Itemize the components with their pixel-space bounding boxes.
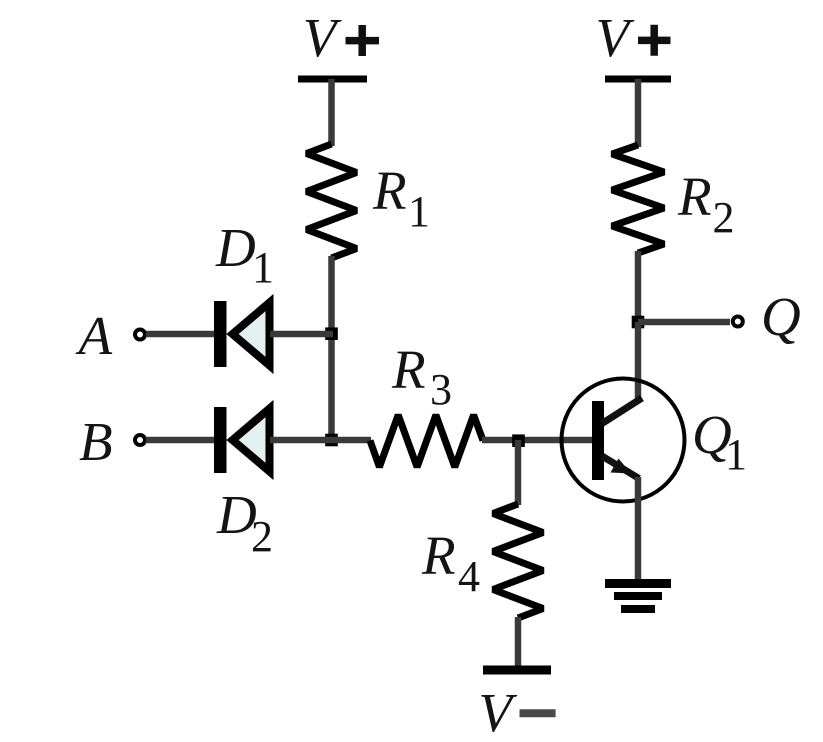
ground xyxy=(605,584,671,610)
V+ rail bar (left) xyxy=(298,76,367,83)
wire B terminal to D2 xyxy=(146,437,216,444)
node junction D1/R1 xyxy=(325,327,338,340)
wire Q node to terminal xyxy=(638,319,730,326)
svg-text:V: V xyxy=(478,682,517,742)
wire emitter to ground xyxy=(635,477,642,581)
V+ label (left) xyxy=(303,7,379,68)
svg-text:V: V xyxy=(596,7,635,68)
wire D2 to R3 xyxy=(270,437,371,444)
resistor R3 xyxy=(370,415,483,467)
wire R4 to V- xyxy=(515,617,522,667)
wire V+ to R2 xyxy=(635,79,642,147)
wire collector vertical xyxy=(635,322,642,400)
wire node to R4 xyxy=(515,440,522,505)
wire D1 to junction xyxy=(270,331,333,338)
V- rail bar xyxy=(483,666,551,675)
svg-text:V: V xyxy=(303,7,342,68)
terminal Q xyxy=(733,317,743,327)
svg-text:A: A xyxy=(75,305,113,366)
V+ rail bar (right) xyxy=(605,76,671,83)
resistor R2 xyxy=(612,145,664,253)
svg-text:B: B xyxy=(79,411,113,472)
V+ label (right) xyxy=(596,7,671,68)
transistor Q1 xyxy=(562,379,685,502)
terminal A xyxy=(135,330,145,340)
node junction collector/Q xyxy=(632,316,645,329)
V- label xyxy=(478,682,555,742)
wire R1 to node B row xyxy=(328,256,335,441)
wire R3 to base xyxy=(482,437,592,444)
resistor R1 xyxy=(307,144,357,258)
terminal B xyxy=(135,435,145,445)
wire A terminal to D1 xyxy=(146,331,216,338)
wire R2 to Q node xyxy=(635,251,642,322)
svg-text:Q: Q xyxy=(761,286,801,347)
node junction D2/R3 xyxy=(325,434,338,447)
diode D1 xyxy=(214,301,270,367)
diode D2 xyxy=(214,407,270,473)
wire V+ to R1 xyxy=(328,79,335,146)
node junction R3/R4/base xyxy=(512,434,525,447)
resistor R4 xyxy=(493,504,543,618)
